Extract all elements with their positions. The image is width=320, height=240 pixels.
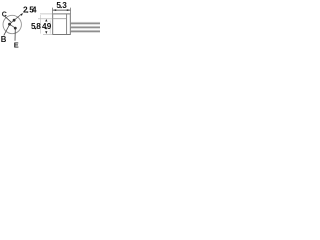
lead 2 (base wire) <box>71 26 100 28</box>
extension line shoulder (4.9) <box>38 18 53 20</box>
body inner horizontal line <box>53 18 67 20</box>
bottom view outline (TO-92 can circle) <box>3 15 21 33</box>
lead 1 (collector wire) <box>71 22 100 24</box>
svg-text:2: 2 <box>23 5 28 15</box>
lead dot E <box>14 27 17 30</box>
dimension 4.9 stem <box>49 21 51 34</box>
extension line seating bottom <box>43 34 53 36</box>
dimension 4.9 down arrowhead <box>45 31 47 34</box>
svg-text:9: 9 <box>47 22 52 31</box>
wire segment B-E <box>10 24 16 28</box>
leader line C <box>5 16 12 22</box>
dimension 5.3 extension line right <box>69 8 71 14</box>
dimension 5.3 left arrowhead <box>53 9 57 11</box>
dimension 2.54 arrowhead <box>20 13 23 16</box>
dimension 5.3 extension line left <box>52 8 54 14</box>
svg-text:54: 54 <box>29 5 37 15</box>
svg-text:E: E <box>14 40 19 48</box>
body outline (side view) <box>53 14 71 35</box>
dimension 5.3 line <box>53 9 71 11</box>
dimension 5.3 right arrowhead <box>67 9 71 11</box>
wire segment B-C <box>10 20 15 24</box>
svg-text:B: B <box>1 35 7 44</box>
leader line E <box>14 29 16 41</box>
svg-text:8: 8 <box>36 22 41 31</box>
dimension 5.8 stem <box>40 15 42 34</box>
leader line B <box>4 25 10 35</box>
extension line top (5.8) <box>40 13 53 15</box>
svg-text:3: 3 <box>62 1 67 10</box>
dimension 2.54 diagonal line <box>14 14 22 20</box>
dimension 4.9 up arrowhead <box>45 19 47 22</box>
svg-text:5: 5 <box>31 22 36 31</box>
lead dot C <box>13 19 16 22</box>
svg-text:C: C <box>2 11 7 18</box>
lead dot B <box>8 23 11 26</box>
lead 3 (emitter wire) <box>71 30 100 32</box>
body inner vertical line <box>66 14 68 34</box>
svg-text:5: 5 <box>56 1 61 10</box>
